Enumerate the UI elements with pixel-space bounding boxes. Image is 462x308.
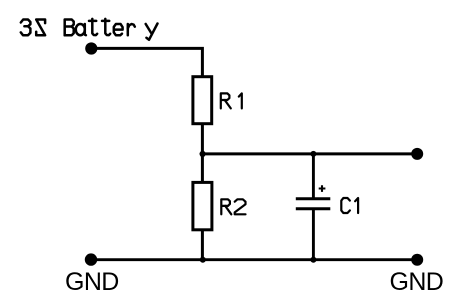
wire: midpoint to right terminal [203,152,417,155]
wire: top rail to C1 top plate [312,153,315,200]
resistor R2 [193,182,212,229]
node: output terminal [411,148,423,160]
junction node: C1 bottom [310,257,316,263]
wire: battery node to corner [91,48,202,76]
wire: R2 bottom to ground rail [201,230,204,260]
label R1 [221,93,242,108]
polarity mark + of C1 [319,185,326,192]
label GND right [390,270,444,295]
wire: R1 bottom to R2 top [201,125,204,182]
junction node: R2 to ground rail [200,257,206,263]
node: GND right terminal [411,254,423,266]
wire: C1 bottom plate to ground rail [312,208,315,261]
junction node: divider midpoint [200,151,206,157]
node: GND left terminal [85,253,97,265]
net label "3S Battery" [21,19,158,40]
capacitor C1 plates [296,197,331,200]
junction node: C1 top [310,151,316,157]
node: 3S Battery terminal [85,42,97,54]
resistor R1 [193,77,212,124]
label R2 [221,199,245,214]
label C1 [341,198,358,213]
wire: ground rail [91,258,417,261]
label GND left [65,270,119,295]
